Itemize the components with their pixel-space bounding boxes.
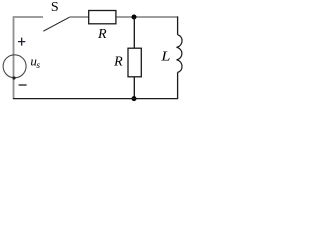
svg-text:S: S [51, 0, 59, 15]
svg-text:s: s [36, 61, 40, 71]
svg-text:L: L [160, 50, 170, 65]
svg-text:R: R [113, 55, 123, 70]
svg-text:R: R [97, 27, 107, 42]
